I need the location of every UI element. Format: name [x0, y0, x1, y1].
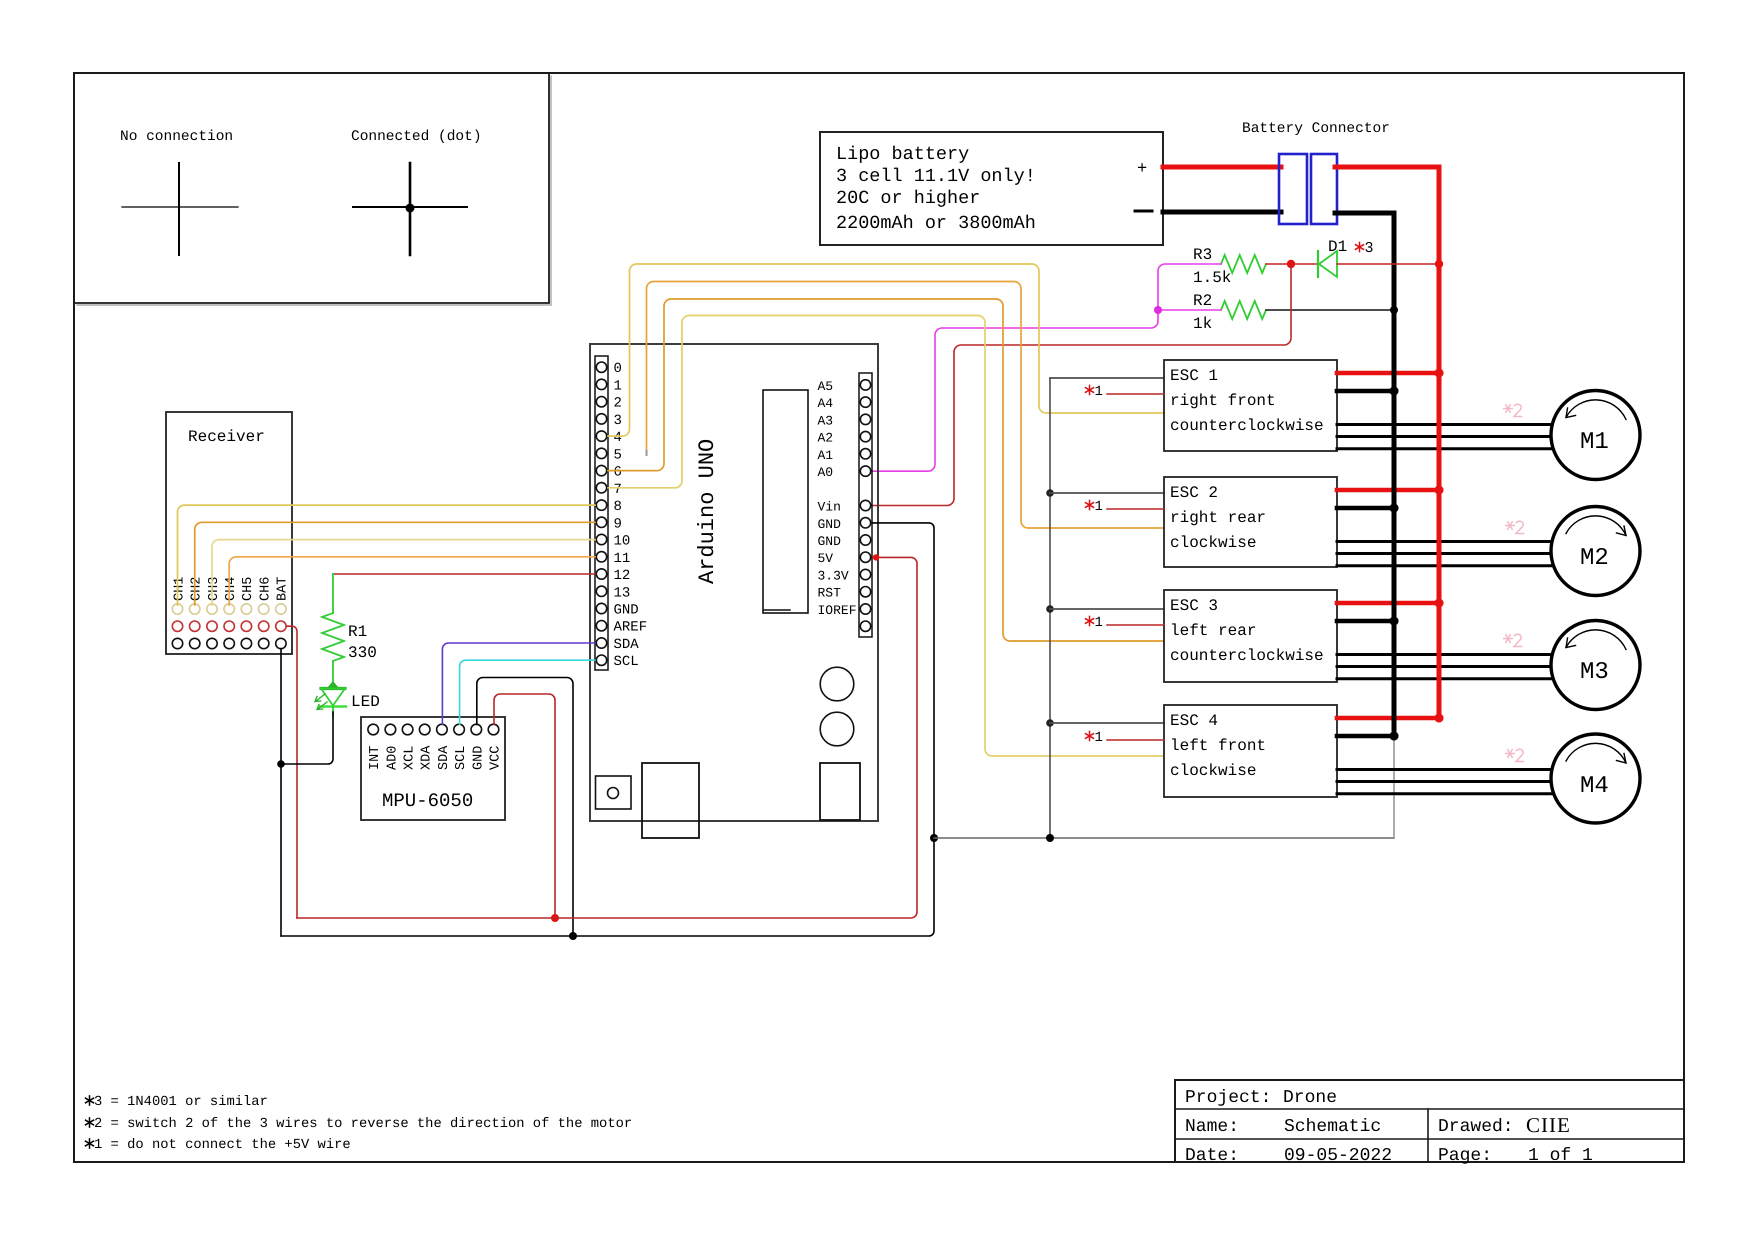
node: ESC +12V junction redraw — [1435, 486, 1444, 495]
svg-text:Schematic: Schematic — [1284, 1117, 1381, 1137]
node: MPU VCC on 5V bus — [551, 914, 559, 922]
ESC 4 box — [1164, 705, 1337, 797]
svg-text:1: 1 — [1095, 615, 1103, 631]
svg-text:XDA: XDA — [420, 745, 435, 770]
svg-text:3 cell 11.1V only!: 3 cell 11.1V only! — [836, 166, 1036, 187]
svg-text:13: 13 — [614, 585, 631, 601]
svg-text:Vin: Vin — [818, 500, 841, 515]
svg-text:1 of 1: 1 of 1 — [1528, 1146, 1593, 1166]
ground rail overdraw segment — [1392, 360, 1397, 734]
svg-text:SCL: SCL — [454, 746, 469, 770]
Receiver pin labels CH1-CH6, BAT — [172, 577, 290, 601]
node: ESC 3 on +12V rail — [1435, 599, 1444, 608]
ESC 2 +5V stub *1 (not connected) — [1086, 499, 1165, 515]
title block — [1175, 1080, 1684, 1162]
+12V rail overdraw segment — [1437, 360, 1442, 718]
svg-text:counterclockwise: counterclockwise — [1170, 417, 1324, 435]
node: ESC +12V junction redraw — [1435, 714, 1444, 723]
wire pin7 to ESC4 signal (yellow) — [608, 316, 1164, 757]
svg-text:CH5: CH5 — [241, 577, 256, 601]
wire junction down to Vin pin (dark red) — [873, 264, 1291, 506]
svg-text:MPU-6050: MPU-6050 — [382, 790, 473, 812]
wire connector to +12V rail (thick red) — [1335, 167, 1439, 718]
wire pin6 to ESC3 signal (dark orange) — [608, 299, 1164, 641]
wire MPU SDA to Arduino SDA (purple) — [442, 643, 595, 725]
node: ESC +12V junction redraw — [1435, 599, 1444, 608]
svg-text:2 = switch 2 of the 3 wires to: 2 = switch 2 of the 3 wires to reverse t… — [94, 1117, 632, 1132]
svg-text:SCL: SCL — [614, 654, 639, 670]
svg-text:XCL: XCL — [403, 746, 418, 770]
wire pin5 to ESC2 signal (orange, floating end) — [647, 282, 1165, 529]
MPU-6050 box — [361, 717, 505, 820]
ESC ground link bus — [934, 837, 1394, 839]
title: name row — [1185, 1113, 1571, 1137]
node: signal-ground bus on link bus — [1046, 834, 1054, 842]
wire ESC 4 power ground (thick black) — [1337, 734, 1394, 739]
wire D1 anode to +12V rail — [1337, 263, 1439, 265]
Arduino crystal circle 1 — [820, 667, 854, 701]
svg-text:Arduino UNO: Arduino UNO — [695, 439, 720, 584]
thin link ESC power ground to link bus — [1393, 734, 1395, 838]
battery connector (two blue shells) — [1279, 154, 1337, 224]
wire MPU GND to ground bus (black) — [477, 678, 573, 937]
svg-text:Name:: Name: — [1185, 1117, 1239, 1137]
node: ESC ground junction redraw — [1390, 732, 1399, 741]
wire ESC 2 +12V (thick red) — [1337, 488, 1439, 493]
svg-text:LED: LED — [351, 693, 380, 711]
legend cross: no connection — [122, 163, 238, 255]
wire receiver BAT- to ground bus (black) — [280, 649, 282, 936]
svg-text:ESC 1: ESC 1 — [1170, 367, 1218, 385]
svg-text:1 = do not connect the +5V wir: 1 = do not connect the +5V wire — [94, 1138, 351, 1153]
svg-text:M3: M3 — [1580, 659, 1609, 686]
wire receiver BAT+ to 5V bus (dark red) — [287, 626, 298, 918]
Lipo battery box — [820, 132, 1163, 245]
svg-text:clockwise: clockwise — [1170, 534, 1256, 552]
motor M3 — [1551, 621, 1640, 710]
motor M4 three phase wires — [1337, 770, 1552, 794]
svg-text:GND: GND — [471, 746, 486, 770]
wire R2 right lead to ground rail — [1266, 309, 1394, 311]
ESC 1 +5V stub *1 (not connected) — [1086, 384, 1165, 400]
svg-text:11: 11 — [614, 551, 631, 567]
node: ESC 2 on ground rail — [1390, 504, 1399, 513]
note *2 at motor M3 — [1504, 638, 1513, 640]
svg-text:left front: left front — [1170, 737, 1266, 755]
svg-text:BAT: BAT — [276, 577, 291, 601]
svg-text:A3: A3 — [818, 413, 834, 428]
svg-text:D1: D1 — [1328, 238, 1347, 256]
svg-text:right rear: right rear — [1170, 509, 1266, 527]
wire R2 left lead (magenta) — [1158, 309, 1221, 311]
5V bottom bus (dark red) — [297, 557, 917, 918]
svg-text:CH3: CH3 — [207, 577, 222, 601]
svg-text:AD0: AD0 — [385, 746, 400, 770]
wire receiver CH2 to pin9 (orange) — [195, 522, 595, 605]
wire ESC 3 power ground (thick black) — [1337, 619, 1394, 624]
ESC 4 +5V stub *1 (not connected) — [1086, 730, 1165, 746]
wire ESC4 ground (gray) — [1050, 722, 1164, 724]
svg-text:CH2: CH2 — [190, 577, 205, 601]
Arduino power jack — [820, 763, 860, 820]
ESC 1 box — [1164, 360, 1337, 451]
note *2 at motor M1 — [1504, 408, 1513, 410]
svg-text:5: 5 — [614, 447, 622, 463]
wire MPU SCL to Arduino SCL (cyan) — [460, 660, 595, 724]
note *2 at motor M4 — [1506, 753, 1515, 755]
resistor R1 330 — [322, 574, 377, 662]
svg-text:ESC 3: ESC 3 — [1170, 597, 1218, 615]
svg-text:2200mAh or 3800mAh: 2200mAh or 3800mAh — [836, 213, 1036, 234]
svg-text:9: 9 — [614, 516, 622, 532]
svg-text:R1: R1 — [348, 623, 367, 641]
svg-text:Page:: Page: — [1438, 1146, 1492, 1166]
node: magenta divider junction — [1154, 306, 1162, 314]
Arduino right header pins A5-A0, Vin,GND,GND,5V,3.3V,RST,IOREF — [818, 379, 871, 632]
svg-text:ESC 2: ESC 2 — [1170, 484, 1218, 502]
note *3 — [89, 1096, 91, 1105]
node: ESC 4 on +12V rail — [1435, 714, 1444, 723]
wire receiver CH1 to pin8 (yellow) — [178, 505, 596, 605]
svg-text:20C or higher: 20C or higher — [836, 188, 980, 209]
wire ESC1 ground (gray) — [1050, 377, 1164, 379]
svg-text:3.3V: 3.3V — [818, 569, 849, 584]
svg-text:GND: GND — [818, 534, 842, 549]
svg-text:Drawed:: Drawed: — [1438, 1117, 1514, 1137]
svg-text:+: + — [1137, 160, 1147, 179]
Arduino UNO board outline — [590, 344, 878, 821]
LED — [315, 661, 346, 716]
svg-text:VCC: VCC — [489, 746, 504, 770]
MPU-6050 pin circles — [368, 724, 499, 735]
svg-text:M4: M4 — [1580, 773, 1609, 800]
Arduino left header pins 0-13,GND,AREF,SDA,SCL — [596, 361, 647, 670]
svg-text:5V: 5V — [818, 551, 834, 566]
battery minus terminal — [1135, 210, 1152, 213]
motor M4 — [1551, 734, 1640, 823]
svg-text:left rear: left rear — [1170, 622, 1256, 640]
node: ESC2 gray junction — [1046, 489, 1054, 497]
motor M1 three phase wires — [1337, 425, 1552, 449]
node: D1 on +12V rail — [1435, 260, 1443, 268]
svg-text:GND: GND — [614, 603, 639, 619]
motor M3 three phase wires — [1337, 655, 1552, 679]
wire ESC 3 +12V (thick red) — [1337, 601, 1439, 606]
wire ESC2 ground (gray) — [1050, 492, 1164, 494]
resistor R3 1.5k — [1193, 246, 1266, 287]
node: ground bus to ESC ground link — [930, 834, 938, 842]
svg-text:INT: INT — [368, 746, 383, 770]
Arduino ICSP block — [596, 776, 632, 809]
svg-text:A1: A1 — [818, 448, 834, 463]
MPU-6050 pin labels — [368, 745, 503, 770]
svg-text:M2: M2 — [1580, 545, 1609, 572]
node: ESC ground junction redraw — [1390, 617, 1399, 626]
Receiver box — [166, 412, 292, 654]
wire ESC 4 +12V (thick red) — [1337, 716, 1439, 721]
svg-text:12: 12 — [614, 568, 631, 584]
wire connector to ground rail (thick black) — [1335, 213, 1394, 734]
svg-text:6: 6 — [614, 465, 622, 481]
node: ESC ground junction redraw — [1390, 387, 1399, 396]
note *2 at motor M2 — [1506, 525, 1515, 527]
svg-text:8: 8 — [614, 499, 622, 515]
svg-text:Battery Connector: Battery Connector — [1242, 121, 1390, 137]
wire ESC 2 power ground (thick black) — [1337, 506, 1394, 511]
wire receiver CH4 to pin11 (orange) — [229, 557, 595, 605]
note *1 — [89, 1139, 91, 1148]
node: ESC 4 on ground rail — [1390, 732, 1399, 741]
Arduino left pin header — [595, 356, 608, 670]
svg-text:3: 3 — [1365, 240, 1374, 257]
svg-text:3: 3 — [614, 413, 622, 429]
motor M2 three phase wires — [1337, 542, 1552, 566]
svg-text:1: 1 — [614, 378, 622, 394]
svg-text:IOREF: IOREF — [818, 603, 857, 618]
svg-text:330: 330 — [348, 644, 377, 662]
Arduino ATmega chip — [763, 390, 808, 613]
wire A0 to divider (magenta) — [873, 264, 1221, 471]
node: ESC 2 on +12V rail — [1435, 486, 1444, 495]
ground bottom bus (black) — [281, 523, 934, 936]
motor M1 — [1551, 391, 1640, 480]
svg-text:10: 10 — [614, 534, 631, 550]
ESC signal-ground bus vertical — [1049, 378, 1051, 838]
svg-text:A0: A0 — [818, 465, 834, 480]
wire battery - to connector (thick black) — [1163, 210, 1281, 215]
wire MPU VCC to 5V bus (dark red) — [494, 694, 555, 918]
svg-text:1: 1 — [1095, 499, 1103, 515]
svg-text:1: 1 — [1095, 730, 1103, 746]
Lipo battery text — [836, 144, 1036, 234]
wire battery + to connector (thick red) — [1163, 165, 1281, 170]
wire ESC 1 power ground (thick black) — [1337, 389, 1394, 394]
ESC 2 box — [1164, 477, 1337, 567]
svg-text:Drone: Drone — [1283, 1088, 1337, 1108]
ESC 3 +5V stub *1 (not connected) — [1086, 615, 1165, 631]
svg-text:3 = 1N4001 or similar: 3 = 1N4001 or similar — [94, 1095, 268, 1110]
Arduino right pin header — [859, 373, 872, 637]
svg-text:1k: 1k — [1193, 315, 1212, 333]
pin5 wire gray end tip — [646, 451, 648, 455]
svg-text:A4: A4 — [818, 396, 834, 411]
node: MPU GND on ground bus — [569, 932, 577, 940]
svg-text:SDA: SDA — [437, 745, 452, 770]
wire pin4 to ESC1 signal (yellow) — [608, 264, 1164, 436]
svg-text:RST: RST — [818, 586, 842, 601]
svg-text:CIIE: CIIE — [1526, 1113, 1571, 1137]
svg-text:4: 4 — [614, 430, 622, 446]
diode D1 — [1318, 238, 1374, 277]
svg-text:CH4: CH4 — [224, 577, 239, 601]
wire Arduino pin12 to R1 (dark red) — [333, 573, 595, 575]
svg-text:right front: right front — [1170, 392, 1276, 410]
svg-text:Connected (dot): Connected (dot) — [351, 129, 482, 145]
node: R3 D1 Vin junction — [1287, 260, 1295, 268]
svg-text:SDA: SDA — [614, 637, 640, 653]
node: ESC4 gray junction — [1046, 719, 1054, 727]
svg-text:ESC 4: ESC 4 — [1170, 712, 1218, 730]
node: ESC3 gray junction — [1046, 605, 1054, 613]
node: ESC 3 on ground rail — [1390, 617, 1399, 626]
svg-text:No connection: No connection — [120, 129, 233, 145]
wire receiver CH3 to pin10 (pale yellow) — [212, 540, 595, 605]
ESC 3 box — [1164, 590, 1337, 682]
node: red dot at 5V pin — [873, 554, 879, 560]
wire ESC3 ground (gray) — [1050, 608, 1164, 610]
svg-text:0: 0 — [614, 361, 622, 377]
node: LED-ground junction — [277, 760, 285, 768]
Receiver pin grid (3 rows x 7 cols) — [172, 604, 286, 649]
legend cross with junction dot — [353, 163, 467, 255]
node: ESC ground junction redraw — [1390, 504, 1399, 513]
svg-text:CH1: CH1 — [172, 577, 187, 601]
svg-text:Lipo battery: Lipo battery — [836, 144, 969, 165]
Arduino USB connector — [642, 763, 699, 838]
svg-text:R2: R2 — [1193, 292, 1212, 310]
svg-text:09-05-2022: 09-05-2022 — [1284, 1146, 1392, 1166]
svg-text:Receiver: Receiver — [188, 428, 265, 446]
svg-text:GND: GND — [818, 517, 842, 532]
node: R2 to ground rail junction — [1390, 306, 1398, 314]
svg-text:clockwise: clockwise — [1170, 762, 1256, 780]
resistor R2 1k — [1193, 292, 1266, 333]
svg-text:Date:: Date: — [1185, 1146, 1239, 1166]
svg-text:1: 1 — [1095, 384, 1103, 400]
svg-text:A5: A5 — [818, 379, 834, 394]
wire R3 right lead — [1266, 263, 1318, 265]
svg-text:AREF: AREF — [614, 620, 648, 636]
wire LED cathode to ground bus — [281, 712, 333, 764]
title: date row — [1185, 1146, 1593, 1166]
svg-text:7: 7 — [614, 482, 622, 498]
svg-text:M1: M1 — [1580, 429, 1609, 456]
svg-text:A2: A2 — [818, 431, 834, 446]
Arduino crystal circle 2 — [820, 712, 854, 746]
motor M2 — [1551, 507, 1640, 596]
svg-text:counterclockwise: counterclockwise — [1170, 647, 1324, 665]
svg-text:CH6: CH6 — [259, 577, 274, 601]
svg-text:Project:: Project: — [1185, 1088, 1271, 1108]
legend box — [74, 73, 551, 305]
node: ESC 1 on ground rail — [1390, 387, 1399, 396]
title: project row — [1185, 1088, 1337, 1108]
wire ESC 1 +12V (thick red) — [1337, 371, 1439, 376]
svg-text:2: 2 — [614, 396, 622, 412]
svg-text:1.5k: 1.5k — [1193, 269, 1231, 287]
note *2 — [89, 1118, 91, 1127]
svg-text:R3: R3 — [1193, 246, 1212, 264]
node: ESC 1 on +12V rail — [1435, 369, 1444, 378]
node: ESC +12V junction redraw — [1435, 369, 1444, 378]
